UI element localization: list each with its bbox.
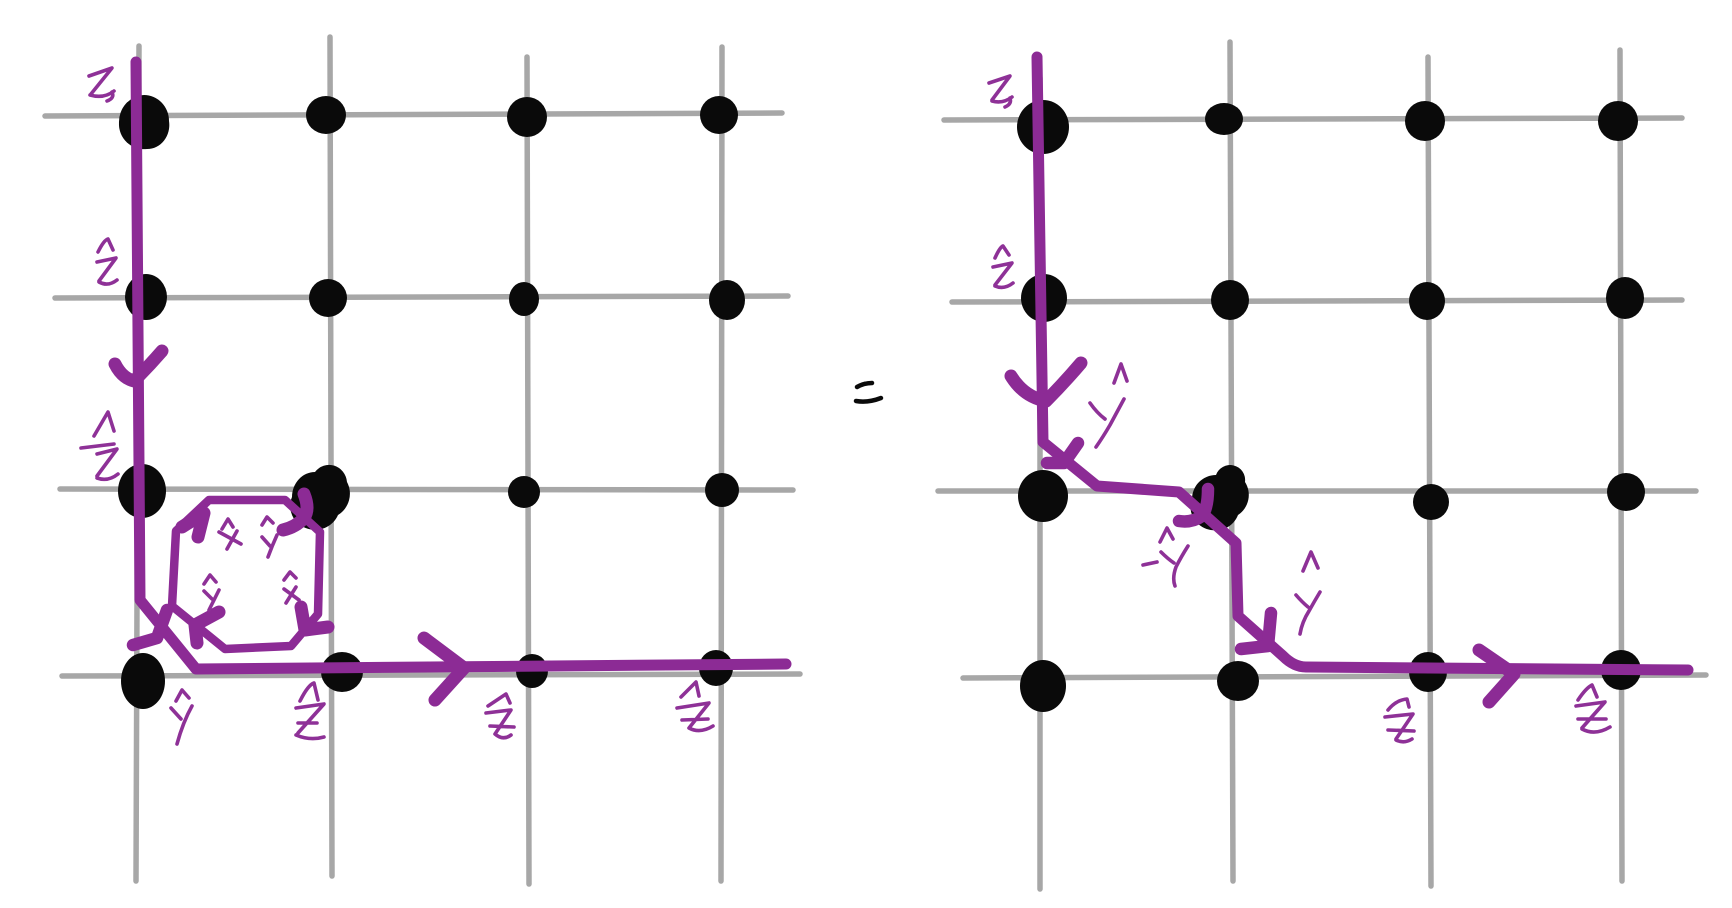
right qubit dot r4c4 (1601, 650, 1641, 690)
right label Z top (989, 76, 1012, 107)
left grid horizontal gridline row1 (45, 113, 782, 116)
right grid horizontal gridline row1 (944, 118, 1682, 120)
right qubit dot r1c4 (1598, 101, 1638, 141)
equals sign between grids (856, 383, 881, 402)
left loop octagon (172, 500, 320, 649)
left purple main path wire (136, 62, 786, 669)
right label Zhat below r4c3 (1385, 699, 1414, 742)
right grid vertical gridline col2 (1230, 42, 1233, 881)
left grid horizontal gridline row4 (62, 674, 800, 676)
left label xhat loop top-left (219, 519, 241, 549)
right label Zhat second (993, 246, 1013, 287)
left arrowhead on loop top-right hook (283, 494, 307, 530)
left label Z top (89, 68, 114, 101)
left qubit dot r4c1 (tall blob) (121, 653, 165, 709)
right qubit dot r4c3 (1409, 652, 1447, 692)
left qubit dot r2c2 (309, 279, 347, 317)
right arrowhead hook at dot r3c2 (1179, 489, 1208, 521)
left grid vertical gridline col2 (330, 37, 332, 876)
right grid horizontal gridline row2 (952, 300, 1682, 302)
left arrowhead on diagonal junction (133, 610, 167, 645)
left grid vertical gridline col1 (136, 46, 139, 881)
right purple main path wire (1037, 57, 1688, 670)
right qubit dot r3c3 (1413, 484, 1449, 520)
left label yhat loop top-right (262, 517, 277, 557)
right grid horizontal gridline row4 (963, 675, 1706, 678)
left label Zhat second (97, 239, 117, 284)
left qubit dot r3c1 (large) (118, 464, 166, 518)
right qubit dot r2c4 (1606, 277, 1644, 319)
right qubit dot r1c2 (1205, 103, 1243, 135)
left qubit dot r3c4 (705, 473, 739, 507)
left qubit dot r1c1 (large) (119, 95, 169, 149)
left qubit dot r3c2 (double blob) (290, 465, 350, 530)
right arrowhead at first bend (1047, 443, 1078, 463)
left arrowhead on loop bottom-right (301, 607, 328, 630)
right qubit dot r3c4 (1607, 473, 1645, 511)
left qubit dot r1c2 (306, 96, 346, 134)
left label xhat loop bottom-right (284, 572, 299, 603)
left label Zhat below r4c4 (677, 682, 713, 731)
right grid vertical gridline col1 (1037, 78, 1043, 889)
right qubit dot r2c3 (1409, 282, 1445, 320)
left qubit dot r1c3 (507, 97, 547, 137)
left qubit dot r3c3 (508, 476, 540, 508)
left arrowhead on loop bottom-left (195, 612, 219, 643)
right qubit dot r1c1 (large) (1017, 100, 1069, 154)
left arrowhead on loop top-left (182, 513, 204, 537)
right grid horizontal gridline row3 (938, 488, 1696, 494)
left grid horizontal gridline row3 (60, 489, 793, 490)
right qubit dot r4c1 (tall blob) (1020, 660, 1066, 712)
left label yhat loop bottom-left (204, 575, 219, 610)
left label Zhat below r4c2 (296, 683, 324, 739)
left label Zhat below r4c3 (486, 694, 514, 738)
left qubit dot r4c2 (321, 652, 363, 692)
right qubit dot r3c2 (double blob) (1191, 465, 1249, 530)
right qubit dot r1c3 (1405, 101, 1445, 141)
left qubit dot r2c1 (125, 274, 167, 320)
left qubit dot r2c4 (709, 280, 745, 320)
left grid horizontal gridline row2 (55, 296, 788, 298)
right arrowhead on vertical segment (1011, 363, 1081, 401)
left label Zhat third (81, 412, 118, 479)
right qubit dot r4c2 (1217, 661, 1259, 701)
left label Yhat below bottom-left dot (171, 690, 192, 744)
right label minus-Yhat middle (1143, 528, 1188, 586)
right qubit dot r2c2 (1211, 280, 1249, 320)
left arrowhead on horizontal segment (424, 638, 464, 700)
left arrowhead on vertical segment (115, 351, 162, 381)
left qubit dot r4c4 (699, 650, 733, 686)
right arrowhead on horizontal segment (1479, 650, 1514, 702)
left qubit dot r4c3 (516, 654, 548, 688)
left qubit dot r2c3 (509, 282, 539, 316)
right label Yhat upper (1090, 364, 1127, 447)
right label Yhat lower (1296, 552, 1320, 634)
right grid vertical gridline col3 (1428, 57, 1431, 886)
right qubit dot r2c1 (1021, 274, 1067, 322)
right qubit dot r3c1 (large) (1018, 470, 1068, 522)
left grid vertical gridline col3 (527, 57, 529, 884)
right arrowhead on second diagonal (1241, 613, 1271, 649)
left grid vertical gridline col4 (721, 47, 722, 881)
right grid vertical gridline col4 (1620, 50, 1622, 881)
right label Zhat below r4c4 (1576, 685, 1610, 732)
left qubit dot r1c4 (700, 96, 738, 134)
